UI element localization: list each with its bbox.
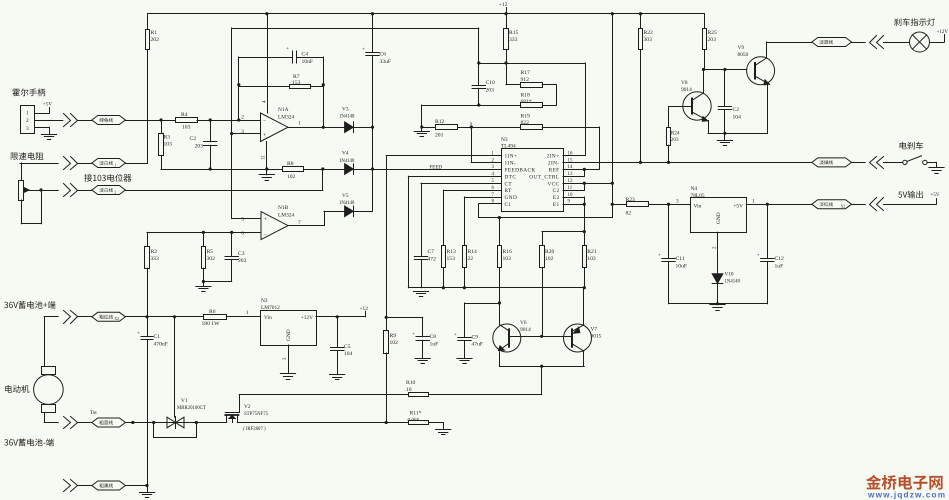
svg-text:V9: V9 [738, 45, 745, 51]
svg-text:CT: CT [505, 181, 513, 187]
svg-text:2: 2 [114, 190, 116, 194]
svg-text:3: 3 [241, 129, 244, 135]
svg-text:1IN+: 1IN+ [505, 154, 518, 160]
svg-text:V8: V8 [681, 80, 688, 86]
svg-text:V7: V7 [591, 326, 598, 332]
svg-text:R24: R24 [671, 130, 680, 136]
svg-text:203: 203 [671, 137, 679, 143]
svg-text:333: 333 [509, 37, 518, 43]
svg-text:N1B: N1B [278, 205, 289, 211]
svg-text:+: + [263, 133, 266, 139]
svg-text:2IN+: 2IN+ [547, 154, 560, 160]
svg-text:2: 2 [241, 115, 244, 121]
svg-text:DTC: DTC [505, 174, 517, 180]
svg-text:E1: E1 [553, 202, 560, 208]
svg-text:102: 102 [287, 174, 296, 180]
svg-text:V6: V6 [520, 320, 527, 326]
svg-text:N3: N3 [501, 137, 508, 143]
svg-text:6: 6 [241, 231, 244, 237]
svg-text:R9: R9 [390, 333, 397, 339]
svg-text:N2: N2 [261, 298, 268, 304]
svg-text:47uF: 47uF [472, 342, 484, 348]
svg-text:103: 103 [503, 256, 512, 262]
svg-text:472: 472 [428, 256, 437, 262]
svg-text:FEEDBACK: FEEDBACK [505, 168, 536, 174]
svg-text:9014: 9014 [681, 87, 692, 93]
svg-text:C7: C7 [428, 249, 435, 255]
svg-text:103: 103 [587, 256, 596, 262]
svg-text:C5: C5 [344, 344, 351, 350]
svg-text:103: 103 [182, 125, 191, 131]
svg-text:1N4148: 1N4148 [339, 201, 355, 206]
svg-text:203: 203 [708, 37, 717, 43]
svg-text:R15: R15 [509, 30, 519, 36]
svg-text:( IRF2807 ): ( IRF2807 ) [243, 427, 266, 432]
svg-text:333: 333 [151, 256, 160, 262]
svg-text:C4: C4 [302, 52, 309, 58]
svg-text:104: 104 [733, 114, 742, 120]
svg-text:+12: +12 [360, 306, 369, 312]
svg-text:1N4148: 1N4148 [725, 279, 741, 284]
svg-text:R3: R3 [164, 135, 171, 141]
svg-text:104: 104 [344, 351, 353, 357]
svg-text:203: 203 [486, 87, 495, 93]
svg-text:Vin: Vin [264, 315, 272, 321]
svg-text:9015: 9015 [591, 334, 602, 340]
svg-text:C8: C8 [430, 334, 437, 340]
svg-text:202: 202 [151, 37, 160, 43]
svg-text:+5V: +5V [43, 103, 52, 108]
svg-text:R19: R19 [521, 113, 531, 119]
svg-text:8050: 8050 [738, 52, 749, 58]
svg-text:303: 303 [644, 37, 653, 43]
svg-text:102: 102 [545, 256, 554, 262]
svg-text:V5: V5 [342, 193, 349, 199]
svg-text:1: 1 [298, 121, 301, 127]
svg-text:1: 1 [26, 110, 29, 116]
svg-text:+5V: +5V [931, 193, 940, 198]
svg-text:STP75NF75: STP75NF75 [244, 412, 269, 417]
svg-text:RT: RT [505, 188, 513, 194]
svg-text:−: − [264, 232, 267, 238]
svg-text:22: 22 [468, 256, 474, 262]
svg-text:VCC: VCC [547, 181, 559, 187]
svg-text:R2: R2 [151, 249, 158, 255]
svg-text:78L05: 78L05 [691, 193, 705, 199]
svg-text:R5: R5 [207, 249, 214, 255]
svg-text:N4: N4 [691, 186, 698, 192]
svg-text:GND: GND [286, 329, 292, 341]
svg-text:203: 203 [238, 258, 247, 264]
svg-text:Tst: Tst [90, 410, 97, 416]
svg-text:5: 5 [241, 217, 244, 223]
svg-text:1N4148: 1N4148 [339, 115, 355, 120]
svg-text:FEED: FEED [430, 166, 443, 171]
svg-text:V3: V3 [342, 107, 349, 113]
svg-text:2: 2 [26, 118, 29, 124]
svg-text:C1: C1 [154, 334, 161, 340]
svg-text:+: + [286, 47, 289, 52]
svg-text:153: 153 [447, 256, 456, 262]
svg-text:2IN-: 2IN- [548, 161, 560, 167]
svg-text:+: + [412, 332, 415, 337]
svg-text:R13: R13 [447, 249, 457, 255]
svg-text:10uF: 10uF [676, 263, 688, 269]
svg-text:www.jqdzw.com: www.jqdzw.com [867, 491, 946, 500]
svg-text:A: A [470, 121, 473, 126]
svg-text:+: + [264, 217, 267, 223]
svg-text:R11*: R11* [410, 410, 422, 416]
svg-text:1: 1 [114, 163, 116, 167]
svg-text:+: + [137, 332, 140, 337]
svg-text:R18: R18 [521, 93, 531, 99]
svg-text:N1A: N1A [278, 107, 289, 113]
svg-text:C9: C9 [472, 334, 479, 340]
svg-text:C2: C2 [189, 136, 196, 142]
svg-text:TL494: TL494 [501, 144, 516, 150]
svg-text:1: 1 [752, 198, 755, 204]
svg-text:180 1W: 180 1W [202, 321, 221, 327]
svg-text:LM324: LM324 [278, 213, 294, 219]
svg-text:R8: R8 [287, 161, 294, 167]
svg-text:Vin: Vin [694, 203, 702, 209]
svg-text:R10: R10 [406, 380, 416, 386]
svg-text:LM7012: LM7012 [261, 305, 280, 311]
svg-text:R12: R12 [435, 119, 445, 125]
svg-text:−: − [263, 118, 266, 124]
svg-text:R14: R14 [468, 249, 478, 255]
svg-text:C1: C1 [505, 202, 512, 208]
svg-text:+: + [362, 48, 365, 53]
svg-text:9014: 9014 [520, 327, 531, 333]
svg-text:R20: R20 [545, 249, 555, 255]
svg-text:R22: R22 [644, 30, 654, 36]
svg-text:R17: R17 [521, 70, 531, 76]
svg-text:+: + [757, 254, 760, 259]
svg-text:C2: C2 [553, 188, 560, 194]
svg-text:3: 3 [676, 198, 679, 204]
svg-text:V4: V4 [342, 151, 349, 157]
svg-text:C11: C11 [676, 256, 685, 262]
svg-text:OUT_CTRL: OUT_CTRL [529, 174, 559, 180]
svg-text:X2: X2 [114, 317, 119, 321]
svg-text:MBR20100CT: MBR20100CT [177, 406, 206, 411]
svg-text:R1: R1 [151, 30, 158, 36]
svg-text:+: + [454, 333, 457, 338]
svg-text:1uF: 1uF [430, 341, 439, 347]
svg-text:+5V: +5V [733, 203, 743, 209]
svg-text:E2: E2 [553, 195, 560, 201]
svg-text:R16: R16 [503, 249, 513, 255]
svg-text:10uF: 10uF [302, 59, 314, 65]
svg-text:C2: C2 [733, 107, 740, 113]
svg-text:LM324: LM324 [278, 114, 294, 120]
svg-text:GND: GND [505, 195, 518, 201]
svg-text:+12V: +12V [301, 315, 313, 321]
svg-text:+12V: +12V [937, 30, 949, 35]
svg-text:470uF: 470uF [154, 342, 168, 348]
svg-text:V1: V1 [181, 398, 188, 404]
svg-text:V10: V10 [725, 272, 734, 278]
svg-text:X2: X2 [841, 205, 846, 209]
svg-text:11: 11 [262, 155, 267, 160]
svg-text:C3: C3 [238, 251, 245, 257]
svg-text:33uF: 33uF [380, 59, 392, 65]
svg-text:82: 82 [626, 211, 632, 217]
svg-text:R25: R25 [708, 30, 718, 36]
svg-text:203: 203 [195, 143, 204, 149]
svg-text:C12: C12 [775, 256, 785, 262]
svg-text:1IN-: 1IN- [505, 161, 517, 167]
svg-text:+: + [658, 254, 661, 259]
svg-text:C10: C10 [486, 80, 496, 86]
svg-text:REF: REF [549, 168, 560, 174]
svg-text:R7: R7 [293, 74, 300, 80]
svg-text:102: 102 [390, 340, 399, 346]
svg-text:R4: R4 [181, 112, 188, 118]
svg-text:3: 3 [26, 126, 29, 132]
svg-text:1uF: 1uF [775, 263, 784, 269]
svg-text:V2: V2 [244, 404, 251, 410]
svg-text:302: 302 [207, 256, 216, 262]
svg-text:103: 103 [164, 142, 173, 148]
svg-text:1: 1 [246, 310, 249, 316]
svg-text:1N4148: 1N4148 [339, 159, 355, 164]
svg-text:GND: GND [716, 212, 722, 224]
svg-text:C6: C6 [380, 52, 387, 58]
svg-text:R21: R21 [587, 249, 597, 255]
svg-text:201: 201 [435, 133, 444, 139]
